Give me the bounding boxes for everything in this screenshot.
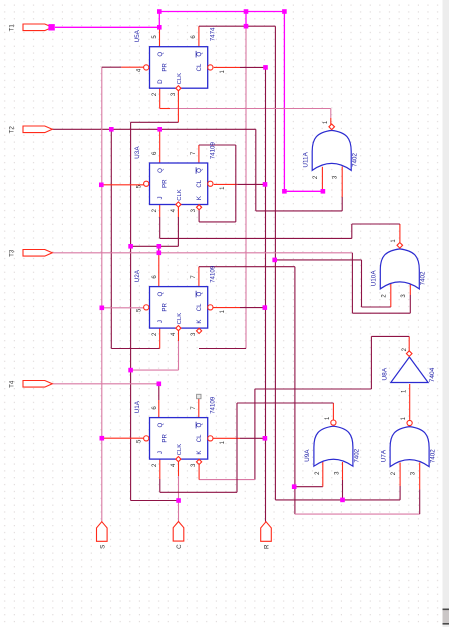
- wire U10A pin2 stub red: [390, 284, 392, 308]
- node junction at 159.3,11.5: [157, 9, 162, 14]
- svg-text:CL: CL: [196, 303, 203, 311]
- wire T2 branch to U2A J horizontal y=348.5: [111, 348, 159, 350]
- svg-text:CLK: CLK: [177, 444, 183, 456]
- svg-text:7402: 7402: [353, 448, 360, 462]
- wire to U1A K horizontal y=479.6 pink: [199, 479, 255, 481]
- wire U3A ~Q loop bottom y=221.9: [199, 221, 236, 223]
- wire U3A CL stub: [214, 183, 238, 185]
- U3A CL bubble: [208, 181, 213, 186]
- wire U1A J stub: [159, 479, 161, 492]
- wire clock spine vertical x=130.6: [130, 122, 132, 500]
- svg-text:CL: CL: [196, 63, 203, 71]
- node junction at 101.8,307.8: [100, 306, 105, 311]
- svg-text:PR: PR: [162, 434, 169, 443]
- wire spine to C horizontal y=500.5: [131, 500, 179, 502]
- U2A CL bubble: [208, 305, 213, 310]
- node junction at 130.6,246.3: [128, 244, 133, 249]
- connector T2: [23, 126, 52, 133]
- svg-text:T3: T3: [9, 249, 16, 257]
- node junction at 158.8,252.8: [157, 251, 162, 256]
- wire U5A ~Q bottom horizontal y=499.9: [275, 499, 400, 501]
- svg-text:U2A: U2A: [134, 269, 141, 282]
- svg-text:U10A: U10A: [371, 270, 378, 287]
- U2A K pin marker: [197, 328, 202, 333]
- wire U9A out horizontal y=400.9: [237, 402, 333, 404]
- wire U5A ~Q horizontal y=26.2: [199, 25, 276, 27]
- wire R net long vertical x=265.5: [265, 67, 267, 521]
- flip-flop U1A (74109) body: [150, 418, 208, 460]
- node junction at 101.3,184.8: [99, 183, 104, 188]
- svg-text:7402: 7402: [352, 153, 359, 167]
- wire U1A CL stub: [213, 437, 241, 439]
- U2A CLK edge marker: [176, 326, 181, 331]
- wire U3A pin6 stub up to T2: [159, 129, 161, 163]
- wire T1 net horizontal from connector T1 to U5A Q column: [55, 26, 159, 28]
- wire T3 to U10A pin3 horizontal y=313.2: [352, 312, 410, 314]
- wire to U9A pin2 horizontal y=486.7: [294, 486, 323, 488]
- connector T4: [23, 381, 52, 388]
- wire U3A pin7 stub up: [198, 145, 200, 163]
- node junction at 246,26.2: [244, 24, 249, 29]
- U5A PR bubble: [144, 65, 149, 70]
- svg-text:J: J: [157, 451, 164, 454]
- node junction at 265.5,67.4: [263, 65, 268, 70]
- NOR gate U7A (7402) body: [390, 427, 429, 467]
- U1A CL bubble: [208, 436, 213, 441]
- wire U7A out to U8A in vertical red: [409, 384, 411, 420]
- svg-text:T1: T1: [9, 24, 16, 32]
- wire U10A out horizontal y=224: [352, 223, 400, 225]
- wire U5A pin6 stub up: [198, 26, 200, 47]
- wire U1A J horizontal y=492.3: [160, 491, 237, 493]
- svg-text:S: S: [99, 545, 106, 549]
- wire U5A ~Q long vertical x=275.4: [274, 26, 276, 500]
- svg-text:U11A: U11A: [303, 151, 310, 167]
- svg-text:74109: 74109: [210, 396, 217, 414]
- node junction at 322.9,191.3: [321, 189, 326, 194]
- node junction at 284.4,11.5: [282, 9, 287, 14]
- svg-text:R: R: [264, 544, 271, 549]
- wire U2A CL stub: [213, 307, 241, 309]
- node junction at 246,11.5: [244, 9, 249, 14]
- node junction at 111.3,129.3: [109, 127, 114, 132]
- wire U5A CLK stub down: [177, 88, 179, 122]
- wire U1A pin6 riser: [158, 384, 160, 400]
- node junction at 159.7,129.3: [157, 127, 162, 132]
- wire U8A out vertical x=371.4: [370, 336, 372, 389]
- NOR gate U10A (7402) body: [380, 249, 419, 289]
- wire S to U5A PR horizontal y=67.2: [102, 66, 122, 68]
- node junction at 264.9,438.3: [263, 436, 268, 441]
- svg-text:7474: 7474: [210, 27, 217, 41]
- svg-text:CL: CL: [196, 434, 203, 442]
- NOR gate U11A (7402) body: [312, 130, 351, 170]
- wire U10A pin3 stub: [409, 295, 411, 313]
- wire U9A output vertical: [332, 403, 334, 420]
- svg-text:D: D: [157, 79, 164, 84]
- node junction at 130.6,370.1: [128, 368, 133, 373]
- wire U2A pin7 stub up: [198, 267, 200, 287]
- wire U3A J stub: [159, 217, 161, 238]
- wire U5A pin5 stub red: [159, 27, 161, 46]
- svg-text:T4: T4: [9, 380, 16, 388]
- wire U8A out horizontal y=389: [255, 388, 372, 390]
- wire S to U1A PR horizontal y=438.2 red: [102, 437, 144, 439]
- scrollbar thumb bottom right: [443, 609, 449, 625]
- svg-text:T2: T2: [9, 126, 16, 134]
- node junction at 159.3,27.3: [157, 25, 162, 30]
- node junction at 264.8,307.6: [263, 305, 268, 310]
- svg-text:CL: CL: [196, 179, 203, 187]
- svg-text:PR: PR: [162, 63, 169, 72]
- wire S to U2A PR horizontal y=307.8 pink: [102, 307, 144, 309]
- node junction at 294.2,486.7: [292, 484, 297, 489]
- svg-text:74109: 74109: [210, 142, 217, 160]
- svg-text:CLK: CLK: [177, 313, 183, 325]
- flip-flop U3A (74109) body: [150, 163, 208, 205]
- wire T3 horizontal y=252.8: [52, 252, 352, 254]
- svg-text:C: C: [176, 544, 183, 549]
- svg-text:J: J: [157, 196, 164, 199]
- node junction at 284.4,191.3: [282, 189, 287, 194]
- wire U10A pin2 vertical x=361.5: [361, 260, 363, 307]
- svg-text:U8A: U8A: [382, 367, 389, 380]
- U2A PR bubble: [144, 305, 149, 310]
- wire U10A output vertical: [399, 224, 401, 242]
- wire S to U3A PR horizontal y=184.8 red: [101, 184, 143, 186]
- flip-flop U2A (74109) body: [150, 287, 208, 329]
- U1A K pin marker: [197, 459, 202, 464]
- U3A K pin marker: [197, 205, 202, 210]
- svg-text:7402: 7402: [430, 449, 437, 463]
- node junction at 274.7,259.9: [272, 258, 277, 263]
- wire T1 net vertical drop x=284.4 to U11A input row: [283, 12, 285, 192]
- wire U7A pin2 drop: [399, 486, 401, 500]
- connector T3: [23, 250, 52, 257]
- U11A output bubble: [329, 124, 335, 130]
- wire U8A out vertical x=254.9: [254, 389, 256, 480]
- svg-text:U9A: U9A: [304, 449, 311, 462]
- U7A output bubble: [407, 420, 412, 425]
- wire U7A pin3 vertical: [419, 489, 421, 514]
- wire T1 net horizontal into U11A pin2: [284, 190, 323, 192]
- wire T4 horizontal y=383.8: [52, 383, 159, 385]
- node junction at 101.8,438.2: [100, 436, 105, 441]
- svg-text:U5A: U5A: [134, 29, 141, 42]
- wire spine to U3A CLK horizontal y=246.3: [131, 245, 179, 247]
- wire U2A J stub red: [159, 328, 161, 349]
- svg-text:Q: Q: [157, 292, 164, 297]
- wire spine top horizontal y=121.5: [131, 121, 179, 123]
- wire U3A CLK stub: [177, 217, 179, 246]
- connector C: [173, 522, 184, 542]
- svg-text:CLK: CLK: [177, 189, 183, 201]
- wire U2A ~Q horizontal y=266.7: [199, 266, 295, 268]
- wire U9A pin3 drop: [342, 480, 344, 500]
- wire U8A output vertical: [408, 336, 410, 351]
- wire U9A out vertical x=237: [236, 403, 238, 492]
- wire U2A K horizontal y=348.5: [199, 348, 246, 350]
- wire spine to U2A CLK horizontal y=370.1 pink: [131, 369, 179, 371]
- wire S net long vertical x=101.8 pink: [101, 67, 103, 522]
- svg-text:7404: 7404: [429, 367, 436, 382]
- wire U8A out horizontal y=336.4: [371, 335, 409, 337]
- wire T2 branch vertical x=111.3: [110, 129, 112, 348]
- wire U3A ~Q loop top y=145: [199, 144, 236, 146]
- svg-text:J: J: [157, 320, 164, 323]
- node junction at 158.8,246.3: [157, 244, 162, 249]
- NOR gate U9A (7402) body: [314, 426, 353, 466]
- wire C connector stem: [178, 476, 180, 521]
- U3A CLK edge marker: [176, 202, 181, 207]
- wire T2 horizontal y=129.3: [52, 128, 256, 130]
- wire U9A pin2 stub: [322, 462, 324, 487]
- node junction at 158.8,383.8: [157, 382, 162, 387]
- wire vertical x=351.8: [351, 224, 353, 238]
- wire U3A ~Q loop vertical x=235.8: [235, 145, 237, 222]
- wire U3A J horizontal y=238.4: [160, 237, 352, 239]
- wire U5A D stub: [159, 88, 161, 108]
- svg-text:U1A: U1A: [134, 400, 141, 413]
- node junction at 265.0,184.4: [263, 182, 268, 187]
- inverter U8A (7404) body: [391, 357, 428, 383]
- scrollbar strip right edge: [443, 0, 449, 627]
- svg-text:Q: Q: [196, 292, 203, 297]
- wire U11A out to U5A D horizontal y=108.5: [170, 108, 331, 110]
- wire U2A ~Q vertical x=294.9: [294, 267, 296, 514]
- svg-text:Q: Q: [196, 423, 203, 428]
- connector T1: [23, 24, 52, 31]
- wire T2 vertical x=255.8: [255, 129, 257, 211]
- U9A output bubble: [331, 420, 336, 425]
- wire U11A pin3 vertical: [341, 197, 343, 211]
- wire pink vertical x=246 down to U2A K row: [245, 26, 247, 348]
- wire U11A output vertical to y=108.5: [330, 109, 332, 119]
- svg-text:PR: PR: [162, 303, 169, 312]
- svg-text:PR: PR: [162, 179, 169, 188]
- node unconnected marker U1A pin7: [197, 394, 201, 398]
- connector S: [97, 522, 108, 542]
- wire U2A Q vertical x=158.8: [158, 246, 160, 253]
- svg-text:Q: Q: [157, 423, 164, 428]
- svg-text:7402: 7402: [420, 271, 427, 285]
- wire T1 branch vertical x=246 top segment: [245, 12, 247, 27]
- wire U2A ~Q bottom horizontal y=514.1 pink: [295, 513, 420, 515]
- wire U11A pin2 stub red: [321, 167, 323, 189]
- svg-text:Q: Q: [157, 52, 164, 57]
- svg-text:Q: Q: [196, 52, 203, 57]
- U5A CLK edge marker: [176, 86, 181, 91]
- wire T1 net vertical riser at x=159: [158, 12, 160, 28]
- svg-text:Q: Q: [196, 168, 203, 173]
- U1A PR bubble: [144, 436, 149, 441]
- wire U2A CLK stub: [178, 341, 180, 370]
- U10A output bubble: [397, 243, 403, 249]
- node junction at 178.6,500.5: [176, 498, 181, 503]
- U8A output bubble: [406, 351, 412, 357]
- U3A PR bubble: [144, 181, 149, 186]
- svg-text:74109: 74109: [210, 265, 217, 283]
- wire U5A CL stub to R: [214, 66, 240, 68]
- svg-text:U3A: U3A: [134, 146, 141, 159]
- wire U3A K riser: [198, 210, 200, 222]
- wire T2 to U11A pin3 horizontal y=210.9: [256, 210, 342, 212]
- wire U1A K riser: [198, 464, 200, 479]
- svg-text:CLK: CLK: [177, 73, 183, 85]
- wire branch to U10A pin2 horizontal y=259.9: [275, 259, 362, 261]
- wire U10A pin2 horizontal y=307: [362, 306, 391, 308]
- U1A CLK edge marker: [176, 457, 181, 462]
- wire U1A pin7 stub unconnected: [198, 398, 200, 418]
- U5A CL bubble: [208, 65, 213, 70]
- wire T3 vertical x=352.4: [351, 253, 353, 313]
- node junction at 342.5,499.9: [340, 498, 345, 503]
- svg-text:Q: Q: [157, 168, 164, 173]
- connector R: [261, 522, 272, 542]
- node junction at 51.6,27.3: [48, 24, 54, 30]
- wire T1 net top horizontal bus y=11.5: [159, 11, 284, 13]
- flip-flop U5A (7474) body: [150, 47, 208, 88]
- svg-text:U7A: U7A: [380, 449, 387, 462]
